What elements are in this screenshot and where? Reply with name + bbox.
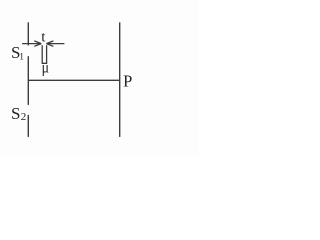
wire: barrier middle segment (27, 56, 29, 105)
node S1 (slit S1 label) (11, 43, 24, 62)
svg-text:1: 1 (19, 52, 24, 62)
wire: central axis from barrier to screen (28, 79, 119, 81)
film slab (U-shaped outline) (42, 45, 46, 63)
wire: barrier bottom segment (27, 115, 29, 137)
wire: barrier top segment (27, 22, 29, 45)
svg-text:S: S (11, 104, 20, 123)
svg-text:P: P (123, 71, 132, 90)
dimension arrow left (pointing right at film) (22, 41, 41, 46)
svg-text:μ: μ (42, 59, 49, 76)
node S2 (slit S2 label) (11, 104, 26, 123)
wire: screen (right vertical line) (119, 22, 121, 136)
svg-text:2: 2 (21, 111, 27, 123)
dimension arrow right (pointing left at film) (46, 41, 64, 46)
